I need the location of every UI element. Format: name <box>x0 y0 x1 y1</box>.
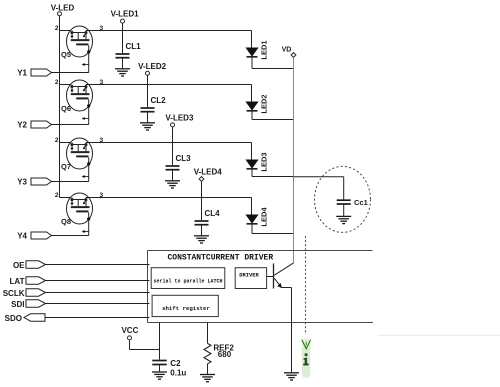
svg-text:V-LED3: V-LED3 <box>165 113 194 122</box>
svg-text:LED3: LED3 <box>259 152 268 171</box>
svg-text:LED2: LED2 <box>259 94 268 113</box>
svg-text:2: 2 <box>55 79 59 86</box>
svg-text:Y2: Y2 <box>17 120 27 129</box>
svg-text:LED4: LED4 <box>259 207 268 227</box>
svg-text:VD: VD <box>282 47 292 54</box>
svg-text:CONSTANTCURRENT DRIVER: CONSTANTCURRENT DRIVER <box>168 254 274 263</box>
svg-text:3: 3 <box>100 79 104 86</box>
svg-text:V-LED2: V-LED2 <box>138 62 167 71</box>
svg-text:Q7: Q7 <box>61 162 71 171</box>
svg-text:SDI: SDI <box>11 300 24 309</box>
svg-text:2: 2 <box>55 25 59 32</box>
svg-text:2: 2 <box>55 192 59 199</box>
svg-text:Cc1: Cc1 <box>354 198 368 207</box>
svg-text:3: 3 <box>100 25 104 32</box>
svg-text:Q5: Q5 <box>61 50 71 59</box>
svg-text:CL3: CL3 <box>176 154 192 163</box>
svg-text:V-LED4: V-LED4 <box>194 168 223 177</box>
svg-text:SCLK: SCLK <box>3 289 25 298</box>
svg-text:CL4: CL4 <box>205 209 221 218</box>
svg-text:OE: OE <box>13 261 25 270</box>
svg-text:V-LED1: V-LED1 <box>111 10 140 19</box>
svg-text:3: 3 <box>100 137 104 144</box>
svg-text:shift register: shift register <box>162 305 210 312</box>
svg-text:Q6: Q6 <box>61 104 71 113</box>
svg-text:VCC: VCC <box>121 326 138 335</box>
svg-text:3: 3 <box>100 192 104 199</box>
svg-text:LAT: LAT <box>10 277 25 286</box>
svg-text:2: 2 <box>55 137 59 144</box>
svg-text:V-LED: V-LED <box>51 4 75 13</box>
svg-text:CL2: CL2 <box>151 96 167 105</box>
svg-text:680: 680 <box>218 350 232 359</box>
svg-text:serial to paralle LATCH: serial to paralle LATCH <box>153 279 222 285</box>
svg-text:CL1: CL1 <box>126 42 142 51</box>
svg-text:DRIVER: DRIVER <box>239 272 259 278</box>
svg-text:LED1: LED1 <box>259 40 268 59</box>
svg-text:Y4: Y4 <box>17 231 27 240</box>
svg-text:Y3: Y3 <box>17 177 27 186</box>
svg-text:Y1: Y1 <box>17 68 27 77</box>
svg-text:0.1u: 0.1u <box>170 369 186 378</box>
svg-text:C2: C2 <box>170 359 181 368</box>
svg-text:SDO: SDO <box>5 314 22 323</box>
svg-text:Q8: Q8 <box>61 217 71 226</box>
